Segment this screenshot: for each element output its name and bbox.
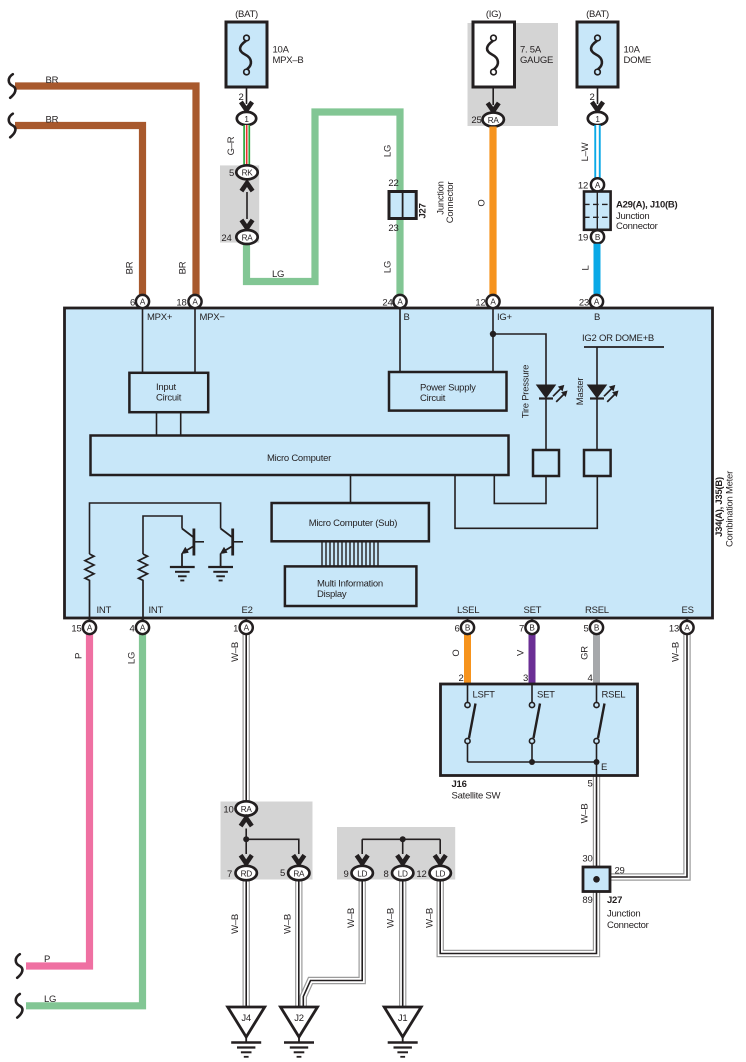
svg-text:Circuit: Circuit [156, 393, 182, 404]
node A pin12 [591, 178, 604, 191]
svg-text:O: O [477, 199, 488, 206]
resistor R2 (INT pin4) [139, 554, 148, 621]
svg-text:LSEL: LSEL [457, 605, 479, 616]
svg-text:A: A [244, 624, 250, 633]
svg-text:MPX−: MPX− [200, 312, 226, 323]
wire BR (to MPX- pin18) [15, 86, 196, 298]
wire RA10 branch [246, 829, 299, 855]
svg-text:6: 6 [454, 624, 459, 635]
svg-text:J2: J2 [294, 1013, 304, 1024]
wire resistor block 1 to micro computer [494, 475, 546, 503]
junction dot SET common [529, 759, 535, 765]
junction dot E [594, 759, 600, 765]
power supply circuit block [389, 372, 507, 411]
svg-text:A: A [684, 624, 690, 633]
svg-text:30: 30 [582, 854, 592, 865]
svg-text:W–B: W–B [386, 908, 397, 928]
wire W-B from RD7 to ground J4 [242, 880, 249, 1007]
break symbol BR1 [9, 74, 16, 98]
break symbol BR2 [9, 114, 16, 138]
svg-text:LG: LG [127, 652, 138, 664]
combination meter body J34(A),J35(B) [65, 308, 713, 618]
pin 1(A) meter bottom [233, 618, 253, 635]
node LD pin9 [352, 866, 373, 880]
node LD pin8 [392, 866, 413, 880]
svg-text:GAUGE: GAUGE [520, 55, 553, 66]
svg-text:A: A [140, 298, 146, 307]
wire MPX+ pin6 to input circuit [142, 308, 144, 373]
svg-text:J4: J4 [241, 1013, 251, 1024]
svg-text:J27: J27 [607, 895, 622, 906]
wire W-B from E2 pin1 to RA10 [242, 634, 249, 801]
wire INT2 branch: pin4 up and over to transistor Q1 [143, 516, 182, 554]
svg-text:W–B: W–B [580, 804, 591, 824]
svg-text:L–W: L–W [580, 142, 591, 161]
wire W-B from RA5 to ground J2 [295, 880, 302, 1007]
svg-text:1: 1 [244, 115, 249, 124]
svg-text:22: 22 [388, 178, 398, 189]
satellite SW J16 [441, 684, 638, 776]
svg-text:BR: BR [125, 261, 136, 274]
pin 5(B) meter bottom [583, 618, 603, 635]
node B pin19 [591, 230, 604, 243]
wire W-B from LD9 jog to ground J2 [303, 880, 362, 1007]
wire LED1 to resistor block [545, 399, 547, 451]
svg-text:B: B [595, 233, 601, 242]
svg-text:12: 12 [578, 181, 588, 192]
svg-text:5: 5 [583, 624, 588, 635]
svg-text:Tire Pressure: Tire Pressure [521, 365, 532, 418]
svg-text:29: 29 [615, 866, 625, 877]
resistor R1 (INT pin15) [85, 554, 94, 621]
svg-text:RSEL: RSEL [602, 690, 626, 701]
common wire to E [468, 762, 597, 776]
wire B pin24 to power supply [399, 308, 401, 372]
svg-text:BR: BR [46, 115, 59, 126]
svg-text:W–B: W–B [425, 908, 436, 928]
node 1 (DOME) [588, 112, 607, 125]
pin 23(A) meter top [579, 295, 603, 309]
svg-text:E: E [601, 762, 607, 773]
svg-text:A29(A), J10(B): A29(A), J10(B) [616, 200, 678, 211]
svg-text:(BAT): (BAT) [235, 9, 258, 20]
wire V (purple) SET to J16 pin3 [529, 634, 536, 684]
wire MPX- pin18 to input circuit [194, 308, 196, 373]
svg-text:INT: INT [97, 605, 112, 616]
svg-text:Junction: Junction [607, 909, 640, 920]
fuse 10A MPX-B [226, 9, 303, 87]
svg-text:23: 23 [388, 223, 398, 234]
svg-text:IG+: IG+ [497, 312, 513, 323]
svg-text:Micro Computer: Micro Computer [267, 453, 331, 464]
svg-text:GR: GR [580, 646, 591, 660]
svg-text:LG: LG [383, 261, 394, 273]
svg-text:BR: BR [178, 261, 189, 274]
svg-text:J16: J16 [452, 779, 467, 790]
node RD pin7 [236, 866, 257, 880]
svg-text:Display: Display [317, 589, 347, 600]
node RA pin10 [236, 801, 257, 815]
svg-text:6: 6 [130, 298, 135, 309]
svg-text:LG: LG [383, 145, 394, 157]
svg-text:12: 12 [416, 869, 426, 880]
wire fuse DOME pin2 to node 1 [597, 87, 599, 104]
svg-text:RA: RA [488, 116, 500, 125]
svg-text:W–B: W–B [346, 908, 357, 928]
wire O (orange) LSEL to J16 pin2 [464, 634, 471, 684]
svg-text:DOME: DOME [624, 55, 652, 66]
svg-text:INT: INT [149, 605, 164, 616]
switch SET [529, 684, 540, 762]
svg-text:BR: BR [46, 75, 59, 86]
svg-text:A: A [192, 298, 198, 307]
svg-text:B: B [465, 624, 471, 633]
switch LSFT [465, 684, 476, 762]
svg-text:RA: RA [293, 869, 305, 878]
wire LG (green) pin4 [26, 634, 143, 1006]
wire W-B from LD12 to J27 pin89 [440, 880, 596, 954]
svg-text:ES: ES [682, 605, 694, 616]
wire input circuit to micro computer (two stubs) [157, 412, 181, 435]
svg-text:Connector: Connector [616, 221, 658, 232]
gray shade box (RK/RA junction) [220, 165, 259, 242]
svg-text:W–B: W–B [671, 642, 682, 662]
svg-text:B: B [404, 312, 410, 323]
svg-text:Micro Computer (Sub): Micro Computer (Sub) [309, 518, 398, 529]
wire LG from RA24 around to pin24 [247, 112, 401, 298]
junction dot LD [400, 836, 406, 842]
fuse 10A DOME [577, 9, 651, 87]
junction dot J27 [593, 876, 600, 883]
fuse 7.5A GAUGE [473, 9, 553, 87]
svg-text:RD: RD [241, 869, 253, 878]
svg-text:W–B: W–B [230, 642, 241, 662]
svg-text:Connector: Connector [445, 182, 456, 224]
svg-text:B: B [529, 624, 535, 633]
svg-text:4: 4 [587, 673, 592, 684]
wire W-B ES pin13 to J27 pin29 [610, 634, 687, 877]
node 1 (MPX-B) [237, 112, 256, 125]
wire L-W node1 to A12 [594, 125, 600, 179]
wire fuse GAUGE to node RA25 [492, 87, 494, 105]
svg-text:Combination Meter: Combination Meter [725, 471, 736, 547]
svg-text:LD: LD [357, 869, 367, 878]
transistor Q1 [182, 529, 205, 567]
wire BR (to MPX+ pin6) [15, 126, 143, 299]
svg-text:89: 89 [582, 895, 592, 906]
svg-text:O: O [451, 649, 462, 656]
svg-text:A: A [87, 624, 93, 633]
svg-text:25: 25 [471, 115, 481, 126]
LED tire pressure [537, 385, 567, 402]
wire IG+ branch to tire pressure LED [493, 334, 546, 386]
svg-text:10: 10 [223, 805, 233, 816]
svg-text:7: 7 [519, 624, 524, 635]
ribbon comb between sub and display [322, 541, 378, 566]
pin 7(B) meter bottom [519, 618, 539, 635]
ground J2 [281, 1007, 318, 1057]
svg-text:23: 23 [579, 298, 589, 309]
wire IG2 tap to master LED [596, 347, 598, 386]
svg-text:A: A [594, 298, 600, 307]
node RK pin5 [236, 165, 257, 179]
pin 4(A) meter bottom [129, 618, 149, 635]
svg-text:MPX+: MPX+ [147, 312, 173, 323]
svg-text:5: 5 [229, 168, 234, 179]
junction dot [243, 836, 249, 842]
svg-text:7. 5A: 7. 5A [520, 45, 542, 56]
svg-text:J34(A), J35(B): J34(A), J35(B) [714, 477, 725, 537]
svg-text:SET: SET [524, 605, 542, 616]
pin 12(A) meter top [475, 295, 499, 309]
svg-text:1: 1 [595, 115, 600, 124]
micro computer (sub) block [272, 503, 429, 541]
svg-text:A: A [397, 298, 403, 307]
svg-text:13: 13 [669, 624, 679, 635]
wire W-B from LD8 to ground J1 [399, 880, 406, 1007]
svg-text:RA: RA [241, 805, 253, 814]
svg-text:1: 1 [233, 624, 238, 635]
node LD pin12 [430, 866, 451, 880]
break symbol P [16, 954, 23, 978]
svg-text:A: A [490, 298, 496, 307]
svg-text:LG: LG [272, 269, 284, 280]
pin 13(A) meter bottom [669, 618, 694, 635]
svg-text:Multi Information: Multi Information [317, 579, 383, 590]
ground (Q1 emitter) [170, 567, 195, 581]
arrow into LD9 [357, 855, 368, 863]
svg-text:W–B: W–B [230, 914, 241, 934]
junction connector J27 (top) [389, 192, 416, 219]
gray shade box (LD junction bottom) [337, 827, 455, 880]
svg-text:P: P [44, 954, 50, 965]
svg-text:B: B [594, 624, 600, 633]
wire fuse MPX-B pin2 to node 1 [246, 87, 248, 104]
svg-text:3: 3 [523, 673, 528, 684]
svg-text:10A: 10A [624, 45, 641, 56]
svg-text:24: 24 [221, 233, 231, 244]
switch RSEL [594, 684, 605, 762]
wire LD branch [362, 839, 440, 854]
svg-text:LD: LD [398, 869, 408, 878]
svg-text:10A: 10A [273, 45, 290, 56]
svg-text:Satellite SW: Satellite SW [452, 791, 501, 802]
wire LED2 to resistor block [596, 399, 598, 451]
wire G-R node1 to RK [243, 125, 250, 166]
svg-text:24: 24 [382, 298, 392, 309]
svg-text:Connector: Connector [607, 920, 649, 931]
svg-text:A: A [595, 181, 601, 190]
svg-text:IG2 OR DOME+B: IG2 OR DOME+B [582, 333, 654, 344]
svg-text:SET: SET [537, 690, 555, 701]
arrow into LD12 [435, 855, 446, 863]
svg-text:B: B [594, 312, 600, 323]
node RA pin5 [288, 866, 309, 880]
svg-text:5: 5 [280, 868, 285, 879]
svg-text:P: P [74, 653, 85, 659]
svg-text:J1: J1 [398, 1013, 408, 1024]
micro computer block [91, 436, 509, 476]
svg-text:4: 4 [129, 624, 134, 635]
svg-text:Master: Master [575, 378, 586, 406]
svg-text:RK: RK [242, 169, 254, 178]
arrow into RD7 [241, 855, 252, 863]
arrow up into RA10 [241, 818, 252, 826]
pin 15(A) meter bottom [71, 618, 96, 635]
svg-text:LD: LD [435, 869, 445, 878]
node RA pin25 [483, 113, 504, 127]
svg-text:(BAT): (BAT) [586, 9, 609, 20]
node RA pin24 [236, 230, 257, 244]
svg-text:RSEL: RSEL [585, 605, 609, 616]
pin 6(B) meter bottom [454, 618, 474, 635]
svg-text:L: L [581, 265, 592, 270]
wire IG+ pin12 down [492, 308, 494, 372]
svg-text:19: 19 [578, 233, 588, 244]
ground J1 [384, 1007, 421, 1057]
svg-text:RA: RA [242, 233, 254, 242]
gray shade box (IG fuse area) [468, 23, 559, 126]
wire L (blue) B19 to pin23 [594, 244, 601, 298]
wire GR (gray) RSEL to J16 pin4 [593, 634, 600, 684]
arrow into LD8 [397, 855, 408, 863]
break symbol LG [16, 994, 23, 1018]
svg-text:LG: LG [44, 994, 56, 1005]
LED master [588, 385, 618, 402]
svg-text:12: 12 [475, 298, 485, 309]
svg-text:Power Supply: Power Supply [420, 383, 476, 394]
svg-text:J27: J27 [418, 203, 429, 218]
pin 6(A) meter top [130, 295, 149, 309]
ground (Q2 emitter) [208, 567, 233, 581]
node junction dot on IG+ [490, 331, 496, 337]
svg-text:A: A [140, 624, 146, 633]
svg-text:7: 7 [227, 869, 232, 880]
svg-text:MPX–B: MPX–B [273, 55, 304, 66]
junction connector J27 (bottom) [583, 867, 610, 892]
svg-text:8: 8 [383, 869, 388, 880]
svg-text:15: 15 [71, 624, 81, 635]
svg-text:Circuit: Circuit [420, 393, 446, 404]
svg-text:E2: E2 [242, 605, 253, 616]
wire W-B J16 pin5 to J27 pin30 [593, 776, 600, 869]
svg-text:(IG): (IG) [486, 9, 501, 20]
input circuit U-block [129, 373, 208, 412]
svg-text:9: 9 [343, 869, 348, 880]
transistor Q2 [220, 529, 243, 567]
svg-text:V: V [516, 649, 527, 656]
resistor block (master) [584, 450, 611, 476]
pin 24(A) meter top [382, 295, 406, 309]
wire O (orange) RA25 to pin12 [489, 127, 496, 299]
wire resistor block 2 to micro computer [455, 475, 597, 528]
resistor block (tire pressure) [533, 450, 559, 476]
arrow into RA5 [293, 855, 304, 863]
multi information display block [285, 566, 417, 606]
wire P (pink) pin15 [26, 634, 90, 966]
svg-text:5: 5 [587, 779, 592, 790]
svg-text:W–B: W–B [282, 914, 293, 934]
svg-text:G–R: G–R [226, 136, 237, 155]
svg-text:Input: Input [156, 382, 176, 393]
svg-text:LSFT: LSFT [473, 690, 496, 701]
svg-text:2: 2 [458, 673, 463, 684]
ground J4 [228, 1007, 265, 1057]
pin 18(A) meter top [176, 295, 201, 309]
junction connector A29(A),J10(B) [584, 192, 611, 230]
svg-text:18: 18 [176, 298, 186, 309]
wire micro computer to sub [350, 475, 352, 503]
arrow pair RK to RA [241, 183, 252, 191]
wire INT1 branch: pin15 up and over to transistor Q2 [90, 503, 221, 554]
gray shade box (RA/RD/RA junction bottom) [221, 802, 313, 880]
